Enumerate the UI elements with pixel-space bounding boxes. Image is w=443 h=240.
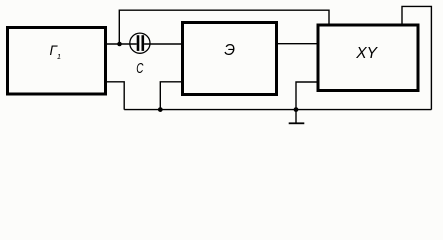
node C junction dot xyxy=(294,107,299,112)
svg-text:C: C xyxy=(136,60,144,76)
wire box1 lower output step down xyxy=(107,82,124,110)
wire node C up to box3 lower input xyxy=(296,82,317,110)
ground stem xyxy=(295,110,297,123)
block Г1 (generator) xyxy=(8,28,106,95)
wire node A up and top run to box3 xyxy=(119,10,329,44)
wire node B up to box2 lower input xyxy=(160,82,181,110)
wire box3 top feedback hook to bottom bus xyxy=(402,6,431,109)
label Э xyxy=(224,42,235,59)
capacitor C1 circle xyxy=(130,33,150,53)
wire capacitor right plate to box2 xyxy=(144,43,181,45)
capacitor C1 plates xyxy=(137,35,140,51)
svg-text:XY: XY xyxy=(355,45,378,62)
block XY (oscilloscope) xyxy=(318,25,418,91)
node B junction dot xyxy=(158,107,163,112)
node A junction dot xyxy=(117,42,122,47)
ground bar xyxy=(289,122,305,124)
wire box2 to box3 xyxy=(278,43,317,45)
wire bottom ground bus xyxy=(124,109,431,111)
label Г1 xyxy=(50,43,62,61)
label C xyxy=(136,60,144,76)
wire box1 to capacitor left plate xyxy=(107,43,137,45)
block Э (element under test) xyxy=(183,23,277,95)
label XY xyxy=(355,45,378,62)
svg-text:Э: Э xyxy=(224,42,235,59)
